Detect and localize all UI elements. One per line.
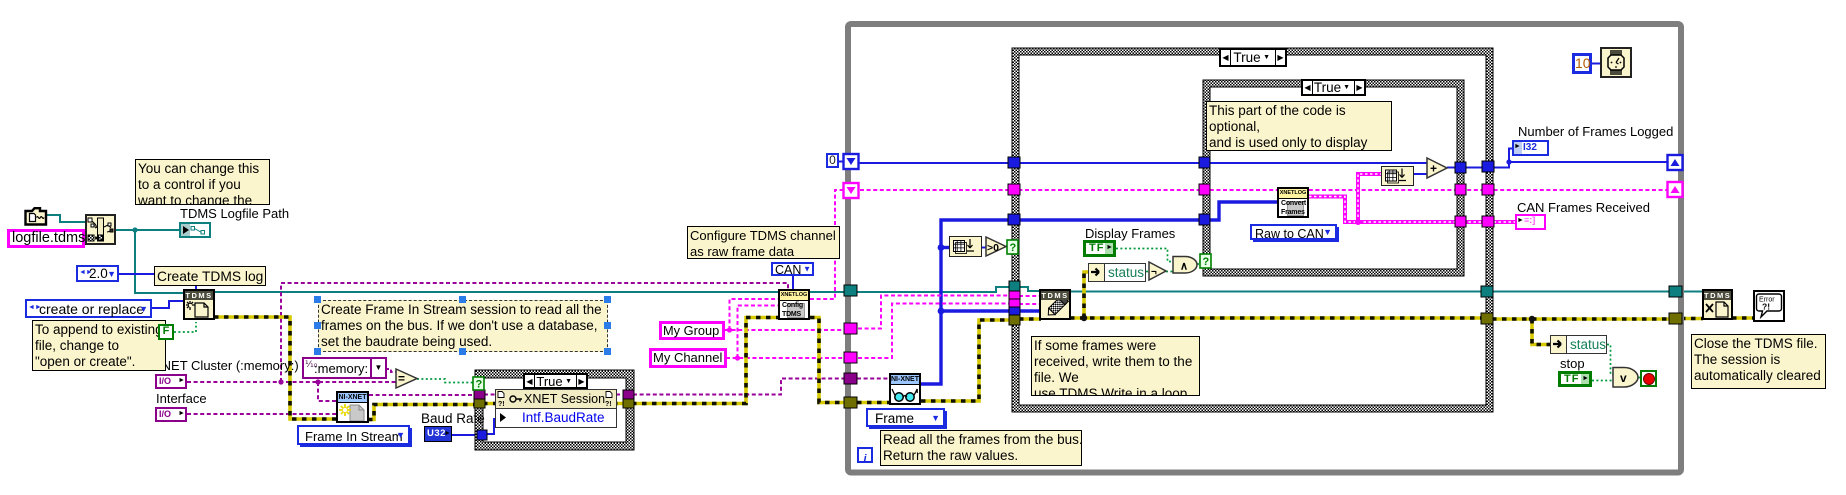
svg-text:∧: ∧ [1180,261,1188,273]
svg-text:+: + [1430,162,1437,176]
svg-text:>0: >0 [987,242,999,254]
svg-text:?!: ?! [605,401,612,408]
svg-text:?!: ?! [1762,302,1770,312]
svg-text:=: = [398,372,405,386]
svg-text:?!: ?! [498,401,505,408]
svg-text:?: ? [1203,256,1210,268]
svg-text:v: v [1620,371,1627,385]
svg-text:?: ? [1010,242,1017,254]
svg-text:¬: ¬ [1151,267,1157,278]
svg-text:?: ? [476,379,483,391]
